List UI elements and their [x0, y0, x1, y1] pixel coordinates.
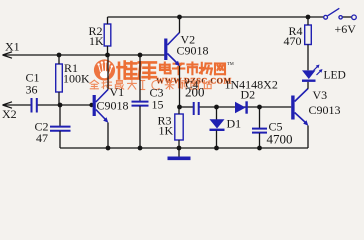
X2 terminal arrow: [3, 102, 13, 108]
svg-text:C9018: C9018: [97, 99, 129, 113]
capacitor C5: [252, 107, 267, 148]
svg-text:1K: 1K: [89, 34, 104, 48]
capacitor C4: [194, 102, 199, 115]
svg-text:+6V: +6V: [335, 22, 357, 36]
watermark text 维库: [118, 62, 156, 79]
watermark text 电子市场网: [160, 63, 225, 75]
wire mid line: [180, 106, 292, 108]
power switch: [324, 8, 357, 19]
resistor R3: [175, 107, 183, 148]
node R4 top: [306, 15, 311, 20]
capacitor C1: [32, 98, 37, 113]
node R3 at rail: [177, 146, 182, 151]
svg-text:D2: D2: [241, 88, 256, 102]
svg-text:15: 15: [152, 98, 164, 112]
svg-text:470: 470: [284, 34, 302, 48]
X1 terminal arrow: [3, 52, 13, 58]
watermark row 全球最大IC采购网站: [90, 80, 211, 89]
svg-text:X1: X1: [5, 40, 20, 54]
node V1 emitter at rail: [106, 146, 111, 151]
transistor V1: [93, 55, 109, 148]
svg-text:V1: V1: [110, 85, 125, 99]
svg-text:36: 36: [26, 83, 38, 97]
svg-text:X2: X2: [2, 107, 17, 121]
node R2 bottom / V1 collector: [105, 53, 110, 58]
svg-text:200: 200: [185, 85, 205, 100]
wire top rail: [108, 16, 352, 18]
diode D1: [210, 107, 225, 148]
svg-text:D1: D1: [227, 117, 242, 131]
svg-text:V3: V3: [313, 88, 328, 102]
node V2 emitter / R3 / C4: [177, 105, 182, 110]
node R1 top: [57, 53, 62, 58]
node R1 bottom: [58, 103, 63, 108]
node D1 at rail: [214, 146, 219, 151]
svg-text:C9013: C9013: [309, 103, 341, 117]
resistor R1: [56, 55, 63, 105]
resistor R2: [104, 17, 111, 55]
diode D2: [235, 101, 247, 113]
node V1 base: [89, 103, 93, 107]
watermark logo circle: [94, 59, 115, 80]
transistor V3: [291, 82, 308, 148]
node D2 cathode / C5 / V3 base: [257, 105, 262, 110]
ground: [168, 148, 191, 158]
node C5 at rail: [257, 146, 262, 151]
svg-text:4700: 4700: [267, 132, 293, 147]
transistor V2: [164, 17, 180, 107]
wire bottom rail: [60, 147, 308, 149]
svg-text:47: 47: [36, 131, 48, 145]
svg-text:100K: 100K: [63, 72, 90, 86]
svg-text:TM: TM: [227, 61, 234, 66]
node C3 top: [138, 53, 143, 58]
capacitor C2: [50, 105, 71, 148]
node D1 top: [214, 105, 219, 110]
svg-text:LED: LED: [324, 70, 346, 82]
node V2 collector: [177, 15, 182, 20]
LED: [302, 65, 323, 81]
svg-text:C9018: C9018: [177, 44, 209, 58]
resistor R4: [305, 17, 312, 70]
capacitor C3: [132, 55, 149, 148]
node C3 at rail: [138, 146, 143, 151]
wire X1 line: [3, 54, 165, 56]
svg-text:1K: 1K: [159, 124, 174, 138]
wire X2 line: [3, 104, 93, 106]
